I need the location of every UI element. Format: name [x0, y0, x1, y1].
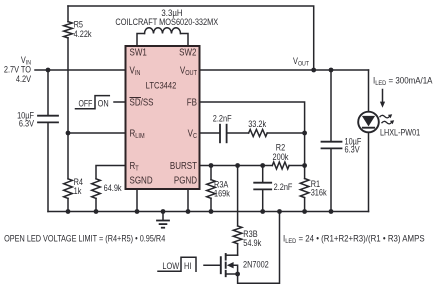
svg-text:4.2V: 4.2V	[16, 73, 32, 84]
resistor R5	[67, 6, 69, 22]
SW1 pin stub	[137, 34, 145, 47]
svg-text:LTC3442: LTC3442	[146, 80, 177, 91]
resistor R3B 54.9k	[237, 166, 239, 226]
overline SD	[130, 97, 142, 99]
svg-text:4.22k: 4.22k	[74, 28, 93, 39]
wire top rail VOUT	[68, 6, 314, 70]
LED D1 cathode bar	[362, 127, 375, 129]
wire RT	[96, 166, 126, 179]
svg-text:6.3V: 6.3V	[19, 118, 35, 129]
svg-text:FB: FB	[187, 97, 197, 108]
svg-text:6.3V: 6.3V	[345, 144, 361, 155]
SGND pin stub	[136, 189, 138, 212]
capacitor C1 10uF input	[47, 70, 49, 115]
LED D1 anode lead	[368, 70, 370, 112]
transistor Q1 body arrow	[227, 262, 234, 268]
capacitor 2.2nF shunt	[262, 166, 264, 183]
svg-text:BURST: BURST	[170, 160, 198, 171]
svg-text:64.9k: 64.9k	[104, 182, 123, 193]
op-amp U1 LTC3442 body	[126, 46, 200, 189]
SW2 pin stub	[181, 34, 189, 47]
svg-text:1k: 1k	[74, 185, 83, 196]
svg-text:2N7002: 2N7002	[243, 259, 269, 270]
wire source return	[238, 212, 280, 284]
PGND pin stub	[187, 189, 189, 212]
wire VIN row	[35, 69, 126, 71]
svg-text:33.2k: 33.2k	[248, 118, 267, 129]
wire BURST row	[200, 165, 273, 167]
capacitor 2.2nF series	[200, 132, 220, 134]
svg-text:2.2nF: 2.2nF	[274, 181, 293, 192]
svg-text:HI: HI	[184, 260, 191, 271]
resistor R2 200k	[272, 162, 289, 169]
svg-text:200k: 200k	[273, 151, 290, 162]
resistor 33.2k	[249, 130, 268, 137]
wire VOUT row	[200, 69, 369, 71]
svg-text:SW1: SW1	[130, 47, 147, 58]
OFF/ON step symbol	[76, 96, 110, 109]
LOW/HI step symbol	[158, 257, 196, 271]
arrowhead ILED	[380, 102, 385, 108]
svg-text:LHXL-PW01: LHXL-PW01	[380, 126, 420, 137]
svg-text:VOUT: VOUT	[293, 55, 309, 67]
LED D1 triangle	[362, 116, 375, 127]
ground symbol	[162, 212, 164, 221]
svg-text:316k: 316k	[311, 187, 328, 198]
LED D1 circle	[358, 112, 379, 133]
resistor R1 316k	[304, 166, 306, 179]
inductor L1 3.3uH	[145, 28, 181, 34]
wire RLIM	[68, 132, 126, 134]
svg-text:OPEN LED VOLTAGE LIMIT = (R4+R: OPEN LED VOLTAGE LIMIT = (R4+R5) • 0.95/…	[4, 234, 166, 244]
svg-text:2.2nF: 2.2nF	[213, 113, 232, 124]
svg-text:COILCRAFT MOS6020-332MX: COILCRAFT MOS6020-332MX	[115, 16, 218, 27]
svg-text:54.9k: 54.9k	[243, 237, 262, 248]
LED D1 light arrows	[380, 115, 392, 124]
wire FB row	[200, 102, 305, 133]
resistor R3A 169k	[210, 166, 212, 180]
svg-text:LOW: LOW	[162, 260, 179, 271]
resistor R4	[64, 179, 73, 199]
wire gate	[204, 264, 220, 266]
arrow ILED	[382, 90, 384, 103]
wire SD/SS	[114, 101, 126, 103]
svg-text:SW2: SW2	[179, 47, 196, 58]
svg-text:PGND: PGND	[174, 175, 198, 186]
svg-text:ILED = 300mA/1A: ILED = 300mA/1A	[373, 75, 433, 87]
transistor Q1 2N7002	[220, 257, 222, 273]
svg-text:SD/SS: SD/SS	[130, 97, 154, 108]
junction dots	[46, 68, 51, 73]
LED D1 cathode lead	[368, 133, 370, 212]
capacitor C2 10uF output	[330, 70, 332, 141]
svg-text:169k: 169k	[214, 188, 231, 199]
resistor RT 64.9k	[92, 179, 101, 199]
wire ground row	[48, 211, 369, 213]
svg-text:ILED = 24 • (R1+R2+R3)/(R1 • R: ILED = 24 • (R1+R2+R3)/(R1 • R3) AMPS	[283, 233, 425, 245]
svg-text:SGND: SGND	[130, 175, 154, 186]
svg-text:OFF: OFF	[79, 99, 93, 109]
svg-text:ON: ON	[98, 98, 109, 109]
